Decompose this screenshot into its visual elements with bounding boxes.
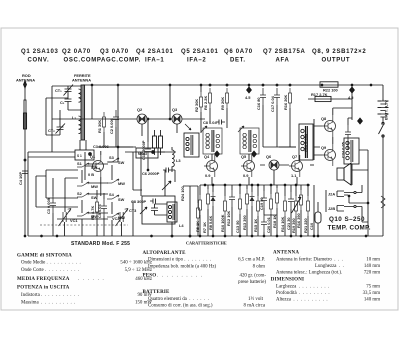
- svg-text:Q2: Q2: [137, 107, 143, 112]
- svg-text:AGC.COMP.: AGC.COMP.: [101, 58, 141, 64]
- svg-text:C10 2000P: C10 2000P: [141, 140, 146, 160]
- svg-text:M 043: M 043: [138, 152, 147, 156]
- svg-text:0.9: 0.9: [243, 173, 249, 178]
- svg-text:C3 0.006: C3 0.006: [93, 144, 110, 149]
- svg-text:Q4: Q4: [204, 154, 210, 159]
- svg-text:S1: S1: [77, 161, 83, 166]
- svg-text:ANTENNA: ANTENNA: [16, 78, 35, 83]
- svg-text:C2 0.006: C2 0.006: [109, 117, 114, 134]
- svg-text:R18 1K: R18 1K: [272, 215, 277, 228]
- svg-text:1½ volt: 1½ volt: [248, 297, 264, 302]
- svg-text:BATTERIE: BATTERIE: [143, 290, 171, 295]
- svg-text:J2B: J2B: [328, 206, 335, 211]
- svg-text:R17 2.7K: R17 2.7K: [311, 92, 328, 97]
- svg-text:S 1: S 1: [77, 154, 82, 158]
- svg-text:R24 100: R24 100: [180, 186, 185, 201]
- svg-text:MW: MW: [91, 214, 98, 219]
- svg-text:Consumo di corr. (in ass. di s: Consumo di corr. (in ass. di seg.): [148, 303, 213, 308]
- svg-text:4.5: 4.5: [245, 95, 251, 100]
- svg-text:R6 2.2K: R6 2.2K: [203, 96, 208, 110]
- svg-text:TEMP. COMP.: TEMP. COMP.: [328, 225, 371, 232]
- svg-text:C3 0.008: C3 0.008: [46, 197, 51, 214]
- svg-text:Quattro elementi da . . .: Quattro elementi da . . . . . .: [148, 297, 209, 302]
- svg-text:R10 100K: R10 100K: [220, 214, 225, 232]
- svg-text:0.9: 0.9: [205, 173, 211, 178]
- svg-text:Indistorta . . . . . . .: Indistorta . . . . . . . . . . .: [21, 293, 79, 298]
- svg-text:140 mm: 140 mm: [364, 264, 380, 269]
- svg-text:ALTOPARLANTE: ALTOPARLANTE: [143, 251, 187, 256]
- svg-text:C18 0.004: C18 0.004: [303, 133, 308, 152]
- svg-text:CONV.: CONV.: [28, 58, 50, 64]
- svg-text:OUTPUT: OUTPUT: [322, 58, 351, 64]
- svg-text:C20 0.01: C20 0.01: [266, 216, 271, 233]
- svg-text:C13 50: C13 50: [235, 220, 240, 233]
- svg-text:R2 30K: R2 30K: [194, 99, 199, 112]
- svg-text:R15 1K: R15 1K: [253, 219, 258, 232]
- svg-text:R1 30K: R1 30K: [97, 120, 102, 133]
- svg-text:6,5 cm a M.P.: 6,5 cm a M.P.: [238, 257, 265, 262]
- svg-text:Q8, 9 2SB172×2: Q8, 9 2SB172×2: [312, 49, 366, 55]
- svg-text:R16 390: R16 390: [296, 213, 301, 228]
- svg-text:CT3: CT3: [129, 208, 137, 213]
- svg-text:C16 80: C16 80: [256, 97, 261, 110]
- svg-text:Q3: Q3: [172, 107, 178, 112]
- svg-text:Q8: Q8: [321, 116, 327, 121]
- svg-text:S3: S3: [109, 155, 115, 160]
- svg-text:L₂: L₂: [72, 115, 76, 120]
- svg-text:420 gr. (com-: 420 gr. (com-: [240, 274, 267, 279]
- svg-text:. . . . . . . .: . . . . . . . . . .: [157, 274, 202, 279]
- svg-text:1.1: 1.1: [291, 173, 297, 178]
- svg-text:8 ohm: 8 ohm: [253, 265, 266, 270]
- svg-text:J2A: J2A: [328, 192, 335, 197]
- svg-text:75 mm: 75 mm: [366, 285, 380, 290]
- svg-text:C8 0.04: C8 0.04: [203, 120, 217, 125]
- svg-text:0 B: 0 B: [88, 172, 94, 177]
- svg-text:GAMME di SINTONIA: GAMME di SINTONIA: [17, 253, 72, 258]
- svg-text:R7 1K: R7 1K: [202, 222, 207, 233]
- svg-text:Q3 0A70: Q3 0A70: [100, 49, 129, 55]
- svg-text:C17 0.04: C17 0.04: [270, 95, 275, 112]
- svg-text:BATT. 4,5V: BATT. 4,5V: [384, 100, 389, 120]
- svg-text:IFA–1: IFA–1: [145, 58, 164, 64]
- svg-text:Altezza . . . . . . .: Altezza . . . . . . . . . .: [276, 297, 328, 302]
- svg-text:PESO: PESO: [143, 274, 157, 279]
- svg-text:Q6: Q6: [266, 154, 272, 159]
- svg-text:ANTENNA: ANTENNA: [72, 78, 91, 83]
- svg-text:33,5 mm: 33,5 mm: [363, 291, 381, 296]
- svg-text:Q1: Q1: [90, 154, 96, 159]
- svg-text:Q5: Q5: [241, 154, 247, 159]
- svg-text:SW: SW: [118, 160, 125, 165]
- svg-text:R8 5.6K: R8 5.6K: [208, 216, 213, 230]
- svg-text:IFA–2: IFA–2: [187, 58, 206, 64]
- svg-text:720 mm: 720 mm: [364, 270, 380, 275]
- svg-text:AFA: AFA: [276, 58, 290, 64]
- svg-text:Q7 2SB175A: Q7 2SB175A: [263, 49, 306, 55]
- svg-text:C4 10P: C4 10P: [18, 172, 23, 185]
- svg-text:Q2 0A70: Q2 0A70: [62, 49, 91, 55]
- svg-text:Impedenza bob. mobile (a 400 H: Impedenza bob. mobile (a 400 Hz): [148, 265, 217, 270]
- svg-text:R16 20K: R16 20K: [283, 94, 288, 110]
- svg-text:R13 390: R13 390: [242, 215, 247, 230]
- svg-text:4.5: 4.5: [348, 95, 354, 100]
- svg-text:VC1: VC1: [70, 218, 78, 223]
- svg-text:Profondità . . . . . .: Profondità . . . . . . . . .: [276, 291, 330, 296]
- svg-text:Onde Medie . . . . . . .: Onde Medie . . . . . . . . . .: [21, 261, 81, 266]
- svg-text:R9 20K: R9 20K: [220, 97, 225, 110]
- svg-text:Q9: Q9: [321, 145, 327, 150]
- svg-text:140 mm: 140 mm: [364, 297, 380, 302]
- svg-text:Q4 2SA101: Q4 2SA101: [136, 49, 173, 55]
- svg-text:MW: MW: [118, 215, 125, 220]
- svg-text:S4: S4: [109, 192, 115, 197]
- svg-text:POTENZA in USCITA: POTENZA in USCITA: [17, 286, 70, 291]
- svg-text:Onde Corte . . . . . . .: Onde Corte . . . . . . . . . .: [21, 268, 79, 273]
- svg-text:CARATTERISTICHE: CARATTERISTICHE: [186, 241, 227, 246]
- svg-text:R21 220: R21 220: [303, 218, 308, 233]
- svg-text:C8 300P: C8 300P: [131, 199, 147, 204]
- svg-text:MW: MW: [118, 181, 125, 186]
- svg-text:Massima . . . . . . .: Massima . . . . . . . . . .: [21, 300, 75, 305]
- svg-text:Q6 0A70: Q6 0A70: [224, 49, 253, 55]
- svg-text:R14 10K: R14 10K: [280, 216, 285, 232]
- svg-text:R5 1K: R5 1K: [195, 221, 200, 232]
- svg-text:Q10 S–250: Q10 S–250: [329, 216, 365, 223]
- svg-text:DIMENSIONI: DIMENSIONI: [271, 278, 304, 283]
- svg-text:Antenna telesc.: Lunghezza (to: Antenna telesc.: Lunghezza (tot.).: [276, 270, 342, 275]
- svg-text:Lunghezza . .: Lunghezza . .: [315, 264, 344, 269]
- svg-text:R12 10K: R12 10K: [226, 210, 231, 226]
- svg-text:MW: MW: [91, 184, 98, 189]
- svg-text:10 mm: 10 mm: [366, 257, 380, 262]
- svg-text:Q7: Q7: [292, 154, 297, 159]
- svg-text:DET.: DET.: [230, 58, 246, 64]
- svg-text:SW: SW: [118, 197, 125, 202]
- svg-text:C19 50: C19 50: [259, 197, 264, 210]
- svg-text:C₁: C₁: [60, 100, 65, 105]
- svg-text:CT₂: CT₂: [48, 128, 55, 133]
- svg-text:SW: SW: [91, 165, 98, 170]
- svg-text:Q1 2SA103: Q1 2SA103: [21, 49, 58, 55]
- svg-text:S2: S2: [77, 191, 83, 196]
- svg-text:8 mA circa: 8 mA circa: [244, 303, 266, 308]
- svg-text:. . . . . .: . . . . . .: [78, 277, 104, 282]
- svg-text:OSC.COMP.: OSC.COMP.: [64, 58, 104, 64]
- svg-text:C10: C10: [309, 223, 314, 230]
- svg-text:prese batterie): prese batterie): [238, 280, 266, 285]
- svg-text:Dimensioni e tipo . . . .: Dimensioni e tipo . . . . . . . .: [148, 257, 211, 262]
- svg-text:CT₁: CT₁: [55, 88, 62, 93]
- svg-text:C6 2000P: C6 2000P: [142, 171, 160, 176]
- svg-text:STANDARD Mod. F 255: STANDARD Mod. F 255: [71, 241, 130, 247]
- svg-text:Q5 2SA101: Q5 2SA101: [181, 49, 218, 55]
- svg-text:C24 0.05: C24 0.05: [341, 141, 346, 158]
- svg-text:Larghezza . . . . . . .: Larghezza . . . . . . . . .: [276, 285, 329, 290]
- svg-text:SW: SW: [91, 195, 98, 200]
- svg-text:Antenna in ferrite: Diametro: Antenna in ferrite: Diametro . . .: [276, 257, 343, 262]
- svg-text:ANTENNA: ANTENNA: [273, 251, 299, 256]
- svg-text:MEDIA FREQUENZA: MEDIA FREQUENZA: [17, 277, 70, 282]
